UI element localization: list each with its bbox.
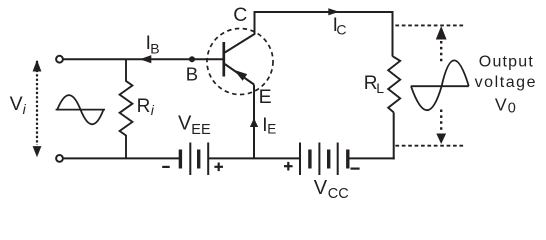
battery VEE: plate 2 tall (positive)	[189, 143, 191, 176]
wire: top-left horizontal from input terminal to transistor base	[63, 58, 223, 60]
transistor Q1: base bar	[222, 42, 225, 77]
svg-text:V: V	[314, 177, 328, 199]
wire: emitter vertical down to bottom wire	[253, 85, 255, 159]
svg-text:i: i	[23, 101, 27, 117]
wire: bottom middle segment (VEE battery to VCC battery)	[208, 157, 300, 159]
arrow IC (on top wire, points right)	[328, 8, 339, 15]
battery VCC: plate 6 short (negative)	[346, 150, 349, 169]
wire: RL bottom stub to bottom wire	[393, 112, 395, 159]
node B (junction dot on base wire)	[189, 56, 195, 62]
battery VCC: plate 1 tall (positive)	[299, 143, 301, 176]
svg-text:E: E	[267, 122, 276, 137]
battery VCC: plate 2 short	[308, 150, 311, 169]
terminal: input bottom open circle	[56, 155, 63, 162]
battery VCC: plate 5 tall	[337, 143, 339, 176]
wire: bottom right segment (VCC battery to RL branch)	[348, 157, 395, 159]
battery VCC: plate 4 short	[327, 150, 330, 169]
resistor Ri (zigzag at x=126)	[120, 59, 133, 158]
svg-text:EE: EE	[191, 122, 211, 138]
wire: right vertical down to RL	[392, 11, 394, 56]
V0 measurement double arrow (dotted)	[440, 41, 442, 63]
svg-text:CC: CC	[328, 186, 349, 202]
svg-text:R: R	[137, 96, 151, 117]
svg-text:B: B	[150, 41, 159, 57]
transistor Q1: emitter arrowhead (points toward base, PNP)	[234, 70, 247, 81]
polarity minus of VCC	[351, 168, 360, 170]
terminal: input top open circle	[56, 56, 63, 63]
output bottom dashed reference line	[395, 145, 464, 147]
battery VCC: plate 3 tall	[318, 143, 320, 176]
svg-text:i: i	[151, 102, 155, 118]
svg-text:V: V	[178, 112, 192, 134]
input sine source symbol	[56, 95, 105, 124]
svg-text:V: V	[495, 94, 507, 114]
svg-text:C: C	[336, 22, 346, 38]
resistor RL (zigzag at x=393)	[388, 56, 400, 112]
polarity plus of VEE	[214, 166, 223, 168]
battery VEE: plate 4 tall	[207, 143, 209, 176]
svg-text:C: C	[233, 4, 247, 26]
transistor Q1: dashed envelope circle	[207, 29, 273, 95]
output top dashed reference line	[395, 24, 464, 26]
arrow IB (on base wire, points left)	[140, 55, 151, 63]
svg-text:B: B	[186, 64, 198, 85]
wire: top horizontal (C to RL branch)	[255, 11, 393, 13]
transistor Q1: collector lead (diagonal + vertical up to C)	[225, 11, 255, 53]
svg-text:E: E	[259, 86, 272, 108]
polarity minus of VEE	[162, 166, 170, 168]
wire: bottom left segment (terminal to VEE battery)	[63, 157, 180, 159]
svg-text:0: 0	[508, 100, 516, 116]
polarity plus of VCC	[284, 165, 293, 167]
svg-text:V: V	[10, 93, 23, 115]
transistor Q1: emitter lead diagonal	[225, 64, 254, 85]
svg-text:voltage: voltage	[475, 74, 537, 91]
svg-text:L: L	[376, 80, 384, 96]
svg-text:Output: Output	[479, 54, 534, 71]
arrow IE (on emitter wire, points up)	[250, 118, 258, 127]
Vi measurement double arrow (dotted)	[36, 61, 38, 145]
battery VEE: plate 3 short	[197, 150, 200, 169]
battery VEE: plate 1 short (negative)	[179, 150, 182, 169]
output sine symbol	[411, 60, 469, 110]
